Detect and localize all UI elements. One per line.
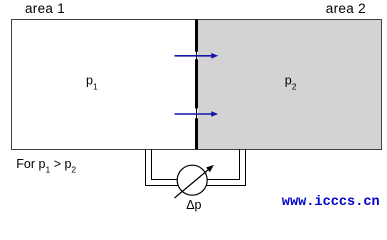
gauge needle arrow [175, 165, 214, 198]
flow arrow 2 [175, 111, 219, 117]
svg-text:For p1 > p2: For p1 > p2 [16, 157, 76, 175]
differential pressure gauge circle [177, 165, 207, 195]
right pipe [206, 149, 247, 186]
svg-text:area 2: area 2 [326, 1, 366, 16]
partition thick dash top segment [195, 20, 198, 52]
area 2 gray fill [198, 20, 382, 149]
flow arrow 1 [175, 53, 219, 59]
left pipe [145, 149, 179, 186]
partition thin centerline [196, 20, 198, 150]
svg-text:area 1: area 1 [25, 1, 65, 16]
partition thick dash bottom segment [195, 118, 198, 149]
svg-text:p1: p1 [86, 74, 98, 92]
svg-text:Δp: Δp [186, 198, 201, 212]
svg-text:www.icccs.cn: www.icccs.cn [282, 195, 380, 210]
partition thick dash middle segment [195, 59, 198, 108]
chamber box [12, 20, 382, 150]
